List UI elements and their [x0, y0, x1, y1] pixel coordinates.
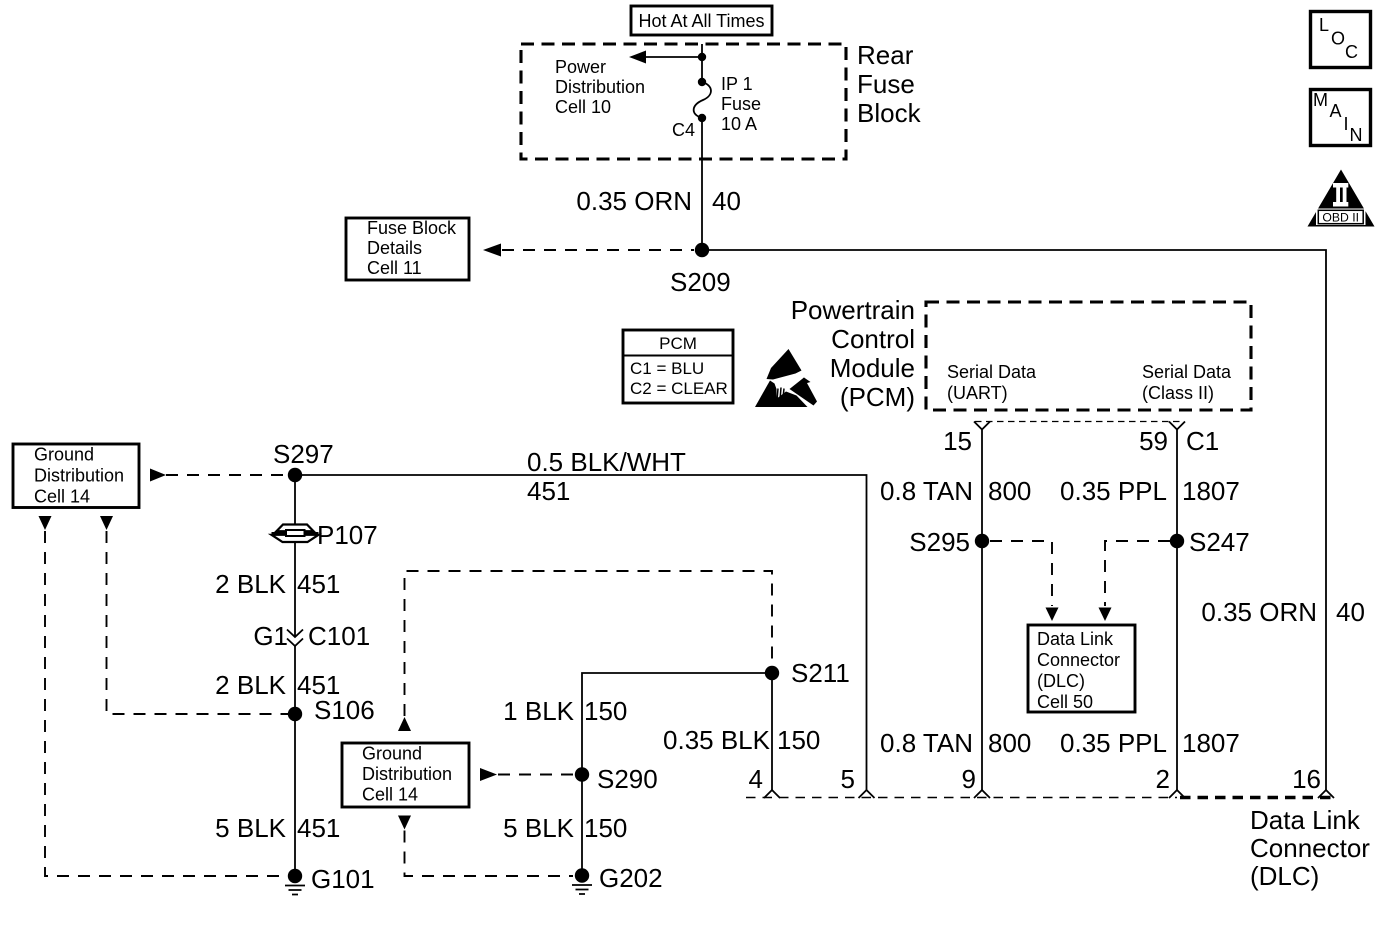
splice S297 — [273, 439, 334, 482]
pin 2 fork — [1156, 764, 1185, 798]
svg-text:Block: Block — [857, 98, 922, 128]
label: 5 BLK 150 — [503, 813, 627, 843]
label: 0.8 TAN 800 (upper) — [880, 476, 1031, 506]
label box: Hot At All Times — [631, 6, 772, 35]
svg-text:451: 451 — [297, 813, 340, 843]
svg-text:(DLC): (DLC) — [1250, 861, 1319, 891]
svg-text:C2 = CLEAR: C2 = CLEAR — [630, 379, 728, 398]
svg-text:4: 4 — [749, 764, 763, 794]
svg-text:Data Link: Data Link — [1250, 805, 1361, 835]
svg-text:S297: S297 — [273, 439, 334, 469]
svg-text:0.8 TAN: 0.8 TAN — [880, 728, 973, 758]
svg-text:9: 9 — [962, 764, 976, 794]
splice S290 — [575, 764, 658, 794]
svg-text:Distribution: Distribution — [555, 77, 645, 97]
reference box: Data Link Connector (DLC) Cell 50 — [1028, 625, 1135, 712]
svg-text:Fuse: Fuse — [721, 94, 761, 114]
svg-text:59: 59 — [1139, 426, 1168, 456]
symbol: LOC — [1311, 12, 1371, 68]
svg-text:Rear: Rear — [857, 40, 914, 70]
DLC connector dashed edge (thin part) — [746, 797, 1177, 799]
svg-text:M: M — [1313, 90, 1328, 110]
svg-text:1 BLK: 1 BLK — [503, 696, 574, 726]
svg-text:0.35 BLK: 0.35 BLK — [663, 725, 771, 755]
svg-text:Details: Details — [367, 238, 422, 258]
svg-text:G202: G202 — [599, 863, 663, 893]
splice S106 — [288, 695, 375, 725]
symbol: OBD II triangle — [1308, 170, 1375, 227]
svg-text:O: O — [1331, 29, 1345, 49]
dashed arrow: middle box to S290 — [480, 768, 574, 781]
svg-text:451: 451 — [527, 476, 570, 506]
svg-text:1807: 1807 — [1182, 728, 1240, 758]
label: 5 BLK 451 — [215, 813, 340, 843]
legend box: PCM C1=BLU C2=CLEAR — [623, 330, 733, 403]
wire: feed stub into fuse block — [701, 44, 703, 82]
svg-text:5 BLK: 5 BLK — [215, 813, 286, 843]
svg-text:451: 451 — [297, 569, 340, 599]
svg-text:PCM: PCM — [659, 334, 697, 353]
svg-text:0.35 ORN: 0.35 ORN — [1201, 597, 1317, 627]
svg-text:800: 800 — [988, 728, 1031, 758]
svg-text:2 BLK: 2 BLK — [215, 670, 286, 700]
svg-text:16: 16 — [1292, 764, 1321, 794]
svg-text:(PCM): (PCM) — [840, 382, 915, 412]
svg-text:G101: G101 — [311, 864, 375, 894]
svg-text:Connector: Connector — [1037, 650, 1120, 670]
splice S209 — [670, 243, 731, 297]
svg-text:Control: Control — [831, 324, 915, 354]
svg-text:Data Link: Data Link — [1037, 629, 1114, 649]
label: 2 BLK 451 (lower) — [215, 670, 340, 700]
dashed reference arrow: S209 to Fuse Block Details — [483, 244, 694, 257]
svg-text:Power: Power — [555, 57, 606, 77]
svg-text:Cell 11: Cell 11 — [367, 258, 422, 278]
dashed arrow: S295 to DLC cell box — [990, 541, 1059, 621]
label: Serial Data (UART) — [947, 362, 1037, 403]
reference box: Fuse Block Details Cell 11 — [346, 218, 469, 280]
label: 0.8 TAN 800 (lower) — [880, 728, 1031, 758]
dashed reference arrow: left box to S297 — [150, 469, 288, 482]
label: IP 1 Fuse 10 A — [721, 74, 761, 134]
svg-text:5: 5 — [841, 764, 855, 794]
label: 2 BLK 451 (upper) — [215, 569, 340, 599]
svg-text:A: A — [1330, 101, 1342, 121]
connector edge dashed line (PCM) — [975, 421, 1184, 423]
svg-text:0.35 PPL: 0.35 PPL — [1060, 728, 1167, 758]
svg-text:S209: S209 — [670, 267, 731, 297]
reference box: Ground Distribution Cell 14 (left) — [13, 444, 139, 508]
svg-text:Module: Module — [830, 353, 915, 383]
label: 0.5 BLK/WHT 451 — [527, 447, 686, 506]
svg-text:Serial Data: Serial Data — [1142, 362, 1232, 382]
svg-text:N: N — [1350, 125, 1363, 145]
svg-text:(Class II): (Class II) — [1142, 383, 1214, 403]
pin 15 fork — [943, 422, 990, 457]
svg-text:Connector: Connector — [1250, 833, 1370, 863]
pin 5 fork — [841, 764, 875, 798]
wire: S209 to DLC pin 16 (0.35 ORN) — [702, 250, 1326, 790]
svg-text:2 BLK: 2 BLK — [215, 569, 286, 599]
svg-text:Distribution: Distribution — [362, 764, 452, 784]
svg-text:0.5 BLK/WHT: 0.5 BLK/WHT — [527, 447, 686, 477]
label: Data Link Connector (DLC) — [1250, 805, 1370, 891]
reference box: Ground Distribution Cell 14 (middle) — [342, 743, 469, 807]
dashed box: Rear Fuse Block — [521, 44, 846, 159]
wire 0.8 TAN: pin 15 to pin 9 — [981, 430, 983, 791]
DLC connector dashed edge (thick part pins 2-16) — [1180, 796, 1332, 800]
svg-text:S211: S211 — [791, 658, 850, 688]
svg-text:I: I — [1344, 114, 1349, 134]
svg-text:S290: S290 — [597, 764, 658, 794]
svg-text:0.8 TAN: 0.8 TAN — [880, 476, 973, 506]
svg-text:Hot At All Times: Hot At All Times — [638, 11, 764, 31]
svg-text:Cell 14: Cell 14 — [362, 785, 418, 805]
svg-text:S106: S106 — [314, 695, 375, 725]
svg-text:Fuse: Fuse — [857, 69, 915, 99]
splice S295 — [909, 527, 989, 557]
splice S247 — [1170, 527, 1250, 557]
wire: S211 to DLC pin 4 (0.35 BLK) — [771, 673, 773, 790]
svg-text:Fuse Block: Fuse Block — [367, 218, 457, 238]
dashed reference path: middle box up to S211 — [398, 571, 772, 731]
svg-text:Powertrain: Powertrain — [791, 295, 915, 325]
dashed reference path: middle box down to G202 — [398, 816, 573, 877]
pin 59 / C1 fork — [1139, 422, 1219, 457]
splice S211 — [765, 658, 850, 688]
svg-text:(DLC): (DLC) — [1037, 671, 1085, 691]
svg-text:Serial Data: Serial Data — [947, 362, 1037, 382]
in-line connector P107 — [272, 520, 378, 550]
pin 9 fork — [962, 764, 990, 798]
label: 1 BLK 150 — [503, 696, 627, 726]
wire 0.35 PPL: pin 59 to pin 2 — [1176, 430, 1178, 791]
svg-text:C1: C1 — [1186, 426, 1219, 456]
fuse: IP 1 Fuse 10 A — [694, 78, 711, 122]
wire: S211 branch to S290/G202 — [582, 673, 772, 876]
svg-text:5 BLK: 5 BLK — [503, 813, 574, 843]
svg-text:Cell 14: Cell 14 — [34, 487, 90, 507]
svg-text:Ground: Ground — [362, 744, 422, 764]
svg-text:C4: C4 — [672, 120, 695, 140]
dashed arrow: S247 to DLC cell box — [1099, 541, 1171, 621]
svg-text:P107: P107 — [317, 520, 378, 550]
svg-text:15: 15 — [943, 426, 972, 456]
svg-text:C101: C101 — [308, 621, 370, 651]
label: 0.35 PPL 1807 (upper) — [1060, 476, 1240, 506]
pin 4 fork — [749, 764, 780, 798]
label: Serial Data (Class II) — [1142, 362, 1232, 403]
label: Powertrain Control Module (PCM) — [791, 295, 915, 412]
label: Rear Fuse Block — [857, 40, 922, 128]
dashed ground reference line to G101 — [39, 516, 289, 876]
label: 0.35 ORN 40 — [576, 186, 741, 216]
svg-text:(UART): (UART) — [947, 383, 1008, 403]
svg-text:IP 1: IP 1 — [721, 74, 753, 94]
label: 0.35 ORN 40 (right) — [1201, 597, 1365, 627]
svg-text:L: L — [1319, 15, 1329, 35]
svg-text:40: 40 — [1336, 597, 1365, 627]
svg-text:G1: G1 — [253, 621, 288, 651]
svg-text:Cell 50: Cell 50 — [1037, 692, 1093, 712]
wire: fuse to S209 — [701, 118, 703, 250]
svg-text:1807: 1807 — [1182, 476, 1240, 506]
ESD symbol — [755, 349, 817, 407]
svg-text:Cell 10: Cell 10 — [555, 97, 611, 117]
wire: S297 down to G101 — [294, 475, 296, 876]
svg-text:0.35 PPL: 0.35 PPL — [1060, 476, 1167, 506]
note: Power Distribution Cell 10 — [555, 57, 645, 117]
svg-text:800: 800 — [988, 476, 1031, 506]
svg-text:2: 2 — [1156, 764, 1170, 794]
svg-text:OBD II: OBD II — [1322, 210, 1359, 224]
in-line connector G1 / C101 — [253, 621, 370, 651]
svg-text:Ground: Ground — [34, 445, 94, 465]
ground G202 — [572, 863, 663, 894]
svg-text:0.35 ORN: 0.35 ORN — [576, 186, 692, 216]
label: 0.35 PPL 1807 (lower) — [1060, 728, 1240, 758]
svg-text:40: 40 — [712, 186, 741, 216]
svg-text:C1 = BLU: C1 = BLU — [630, 359, 704, 378]
label: 0.35 BLK 150 — [663, 725, 820, 755]
wire 0.5 BLK/WHT: S297 to DLC pin 5 — [295, 475, 867, 790]
svg-text:C: C — [1345, 42, 1358, 62]
dashed box: PCM connector — [926, 302, 1251, 410]
svg-text:150: 150 — [777, 725, 820, 755]
svg-text:10 A: 10 A — [721, 114, 757, 134]
svg-text:S295: S295 — [909, 527, 970, 557]
svg-text:S247: S247 — [1189, 527, 1250, 557]
symbol: MAIN — [1311, 90, 1371, 146]
svg-text:Distribution: Distribution — [34, 466, 124, 486]
svg-text:150: 150 — [584, 696, 627, 726]
pin 16 fork — [1292, 764, 1334, 798]
svg-text:150: 150 — [584, 813, 627, 843]
dashed ground reference line to S106 — [100, 516, 288, 714]
ground G101 — [285, 864, 375, 895]
arrow to power distribution — [629, 51, 706, 64]
